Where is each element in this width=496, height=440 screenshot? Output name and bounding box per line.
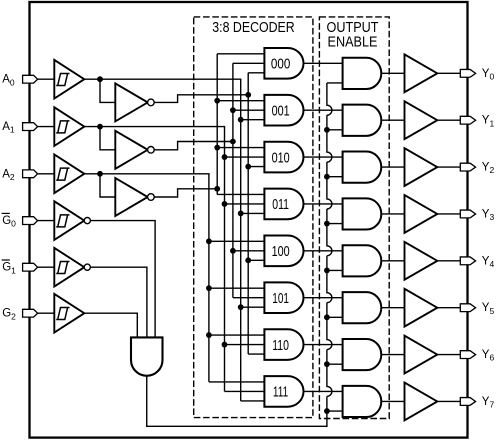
wire input A0 pin to buffer [38, 78, 55, 80]
buffer Y1 [405, 101, 438, 139]
wire G1 to enable AND input [91, 267, 147, 337]
buffer Y5 [405, 289, 438, 327]
wire A0 to inverter input [100, 79, 115, 102]
wire OE gate Y7 to buffer [381, 400, 404, 402]
schmitt buffer A2 [54, 155, 84, 194]
wire decode 111 input A2 stub [209, 381, 266, 383]
input pin A1 [23, 123, 38, 131]
wire input A1 pin to buffer [38, 126, 55, 128]
svg-text:001: 001 [272, 102, 290, 119]
node tap 110 A1 [222, 342, 228, 348]
AND gate output enable Y1 [343, 105, 382, 136]
node A1̅ bus tap [230, 139, 236, 145]
wire OE gate Y6 to buffer [381, 354, 404, 356]
3:8 decoder dashed box [194, 17, 313, 418]
node tap 101 A0 [238, 304, 244, 310]
AND gate output enable Y6 [343, 339, 382, 370]
output pin Y1 [460, 116, 475, 124]
node enable tap Y7 [324, 408, 330, 414]
wire A2 to inverter input [100, 174, 115, 197]
wire OE gate Y5 to buffer [381, 307, 404, 309]
node A1 branch junction [97, 124, 103, 130]
AND gate output enable Y0 [343, 58, 382, 89]
wire decode 001 input A0 stub [241, 119, 266, 121]
wire A1 to inverter input [100, 127, 115, 150]
wire A0 buffer output [84, 78, 241, 80]
AND gate output enable Y4 [343, 245, 382, 276]
wire input G1 pin to buffer [38, 266, 55, 268]
output pin Y6 [460, 351, 475, 359]
AND gate G enable (3-input) [131, 337, 163, 375]
node A0 branch junction [97, 76, 103, 82]
node tap 100 A2 [206, 238, 212, 244]
node tap 100 A0 [245, 257, 251, 263]
schmitt buffer G2 [54, 294, 84, 333]
wire decode 011 output to enable gate [304, 203, 344, 205]
wire input A2 pin to buffer [38, 173, 55, 175]
node enable tap Y5 [324, 314, 330, 320]
wire decode 101 output to enable gate [304, 297, 344, 299]
wire decode 011 input A2 stub [217, 193, 265, 195]
wire decode 010 input A0 stub [248, 166, 265, 168]
node tap 101 A2 [206, 285, 212, 291]
wire buffer Y0 to pin [437, 72, 460, 74]
wire buffer Y7 to pin [437, 400, 460, 402]
label A0 [2, 74, 15, 88]
output pin Y7 [460, 398, 475, 406]
node enable tap Y1 [324, 127, 330, 133]
wire decode 011 input A1 stub [225, 203, 266, 205]
node enable tap Y4 [324, 268, 330, 274]
label A2 [2, 168, 15, 182]
wire decode 110 input A2 stub [209, 334, 266, 336]
wire decode 100 input A1 stub [233, 250, 266, 252]
wire OE gate Y0 to buffer [381, 72, 404, 74]
output pin Y2 [460, 163, 475, 171]
output pin Y0 [460, 69, 475, 77]
wire decode 110 input A0 stub [248, 353, 265, 355]
buffer Y0 [405, 54, 438, 92]
input pin A2 [23, 170, 38, 178]
buffer Y3 [405, 195, 438, 233]
wire decode 100 input A2 stub [209, 240, 266, 242]
net A1 vertical bus [224, 127, 226, 392]
wire enable stub to OE gate Y0 [327, 82, 344, 84]
wire decode 001 output to enable gate [304, 109, 344, 111]
wire G0 to enable AND input [91, 221, 156, 338]
svg-text:000: 000 [271, 56, 290, 73]
node tap 011 A0 [238, 211, 244, 217]
wire enable stub to OE gate Y6 [327, 363, 344, 365]
wire decode 000 input A2 stub [217, 53, 265, 55]
svg-text:100: 100 [272, 243, 290, 260]
wire OE gate Y3 to buffer [381, 213, 404, 215]
output pin Y3 [460, 210, 475, 218]
output pin Y4 [460, 257, 475, 265]
svg-text:011: 011 [272, 196, 289, 213]
wire A1̅ inverter output to bus [154, 142, 233, 150]
node enable tap Y3 [324, 221, 330, 227]
wire OE gate Y4 to buffer [381, 260, 404, 262]
wire enable stub to OE gate Y3 [327, 223, 344, 225]
svg-text:OUTPUT: OUTPUT [327, 20, 379, 36]
AND gate decode 001 [264, 95, 303, 126]
net A2̅ vertical bus [216, 54, 218, 195]
wire OE gate Y1 to buffer [381, 119, 404, 121]
wire decode 001 input A2 stub [217, 100, 265, 102]
net A0 vertical bus [240, 79, 242, 401]
wire enable stub to OE gate Y1 [327, 129, 344, 131]
schmitt buffer A1 [54, 107, 84, 146]
wire decode 000 input A1 stub [233, 62, 266, 64]
wire OE gate Y2 to buffer [381, 166, 404, 168]
wire buffer Y3 to pin [437, 213, 460, 215]
wire G2 to enable AND input [84, 313, 137, 337]
label G2 [2, 308, 16, 322]
wire A2̅ inverter output to bus [154, 189, 217, 197]
node tap 100 A1 [230, 248, 236, 254]
wire enable stub to OE gate Y2 [327, 176, 344, 178]
input pin A0 [23, 75, 38, 83]
net A1̅ vertical bus [232, 63, 234, 297]
wire decode 100 output to enable gate [304, 250, 344, 252]
wire enable stub to OE gate Y7 [327, 410, 344, 412]
wire A2 buffer output [84, 173, 210, 175]
wire decode 010 input A1 stub [225, 156, 266, 158]
node tap 001 A2 [214, 98, 220, 104]
buffer Y2 [405, 148, 438, 186]
AND gate output enable Y3 [343, 198, 382, 229]
AND gate output enable Y5 [343, 292, 382, 323]
wire decode 101 input A1 stub [233, 297, 266, 299]
node tap 010 A0 [245, 164, 251, 170]
wire decode 000 output to enable gate [304, 62, 344, 64]
net A2 vertical bus [208, 174, 210, 382]
wire A0̅ inverter output to bus [154, 95, 248, 103]
node A0̅ bus tap [245, 92, 251, 98]
inverter A2̅ [115, 178, 154, 216]
node enable tap Y2 [324, 174, 330, 180]
wire A1 buffer output [84, 126, 225, 128]
node tap 010 A1 [222, 154, 228, 160]
wire decode 010 input A2 stub [217, 147, 265, 149]
schmitt buffer A0 [54, 60, 84, 99]
schmitt buffer G0 [54, 201, 90, 240]
buffer Y7 [405, 383, 438, 421]
AND gate decode 101 [264, 282, 303, 313]
wire enable AND output to enable bus [147, 376, 327, 427]
wire buffer Y5 to pin [437, 307, 460, 309]
wire decode 011 input A0 stub [241, 212, 266, 214]
wire enable stub to OE gate Y5 [327, 316, 344, 318]
AND gate decode 000 [264, 48, 303, 79]
node tap 011 A1 [222, 201, 228, 207]
AND gate output enable Y2 [343, 151, 382, 182]
AND gate decode 010 [264, 142, 303, 173]
wire decode 101 input A0 stub [241, 306, 266, 308]
wire decode 100 input A0 stub [248, 259, 265, 261]
wire buffer Y1 to pin [437, 119, 460, 121]
node A2̅ bus tap [214, 186, 220, 192]
input pin G1 [23, 263, 38, 271]
svg-text:111: 111 [273, 384, 288, 401]
svg-text:ENABLE: ENABLE [328, 35, 378, 51]
svg-text:010: 010 [272, 149, 290, 166]
wire decode 111 input A1 stub [225, 390, 266, 392]
wire decode 110 input A1 stub [225, 344, 266, 346]
net enable vertical bus with wire hops [327, 83, 332, 411]
AND gate decode 110 [264, 329, 303, 360]
input pin G2 [23, 309, 38, 317]
wire input G2 pin to buffer [38, 312, 55, 314]
node tap 001 A0 [238, 117, 244, 123]
svg-text:101: 101 [272, 290, 289, 307]
wire decode 010 output to enable gate [304, 156, 344, 158]
net A0̅ vertical bus [247, 73, 249, 354]
node A2 branch junction [97, 171, 103, 177]
svg-text:3:8 DECODER: 3:8 DECODER [212, 20, 295, 36]
wire buffer Y2 to pin [437, 166, 460, 168]
node tap 110 A2 [206, 332, 212, 338]
inverter A1̅ [115, 131, 154, 169]
wire decode 101 input A2 stub [209, 287, 266, 289]
svg-text:110: 110 [272, 337, 289, 354]
output enable dashed box [319, 17, 389, 419]
output pin Y5 [460, 304, 475, 312]
wire decode 111 input A0 stub [241, 400, 266, 402]
wire buffer Y4 to pin [437, 260, 460, 262]
wire enable stub to OE gate Y4 [327, 269, 344, 271]
AND gate output enable Y7 [343, 386, 382, 417]
wire buffer Y6 to pin [437, 354, 460, 356]
schmitt buffer G1 [54, 248, 90, 287]
node tap 001 A1 [230, 107, 236, 113]
wire input G0 pin to buffer [38, 220, 55, 222]
input pin G0 [23, 217, 38, 225]
wire decode 000 input A0 stub [248, 72, 265, 74]
inverter A0̅ [115, 83, 154, 121]
node tap 010 A2 [214, 145, 220, 151]
AND gate decode 011 [264, 189, 303, 220]
AND gate decode 111 [264, 376, 303, 407]
node enable tap Y6 [324, 361, 330, 367]
wire decode 110 output to enable gate [304, 344, 344, 346]
wire decode 111 output to enable gate [304, 390, 344, 392]
label G1 [2, 260, 17, 275]
wire decode 001 input A1 stub [233, 109, 266, 111]
AND gate decode 100 [264, 235, 303, 266]
label A1 [2, 121, 15, 135]
label G0 [2, 213, 17, 228]
buffer Y4 [405, 242, 438, 280]
buffer Y6 [405, 336, 438, 374]
